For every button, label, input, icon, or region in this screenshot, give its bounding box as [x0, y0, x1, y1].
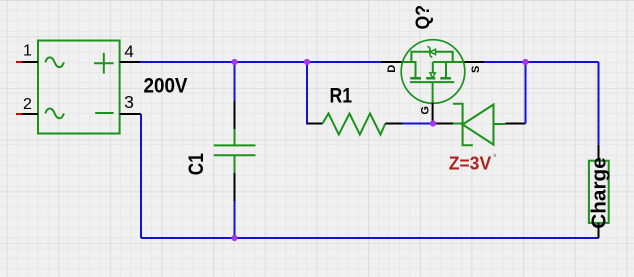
triangle — [463, 105, 494, 145]
bridge AC symbol top (~) — [45, 57, 64, 67]
bridge minus symbol — [95, 112, 113, 114]
node: right rail junction — [522, 59, 528, 65]
svg-text:4: 4 — [124, 42, 133, 61]
svg-text:1: 1 — [23, 43, 32, 60]
body diode triangle — [430, 49, 435, 54]
wire R1 to gate node — [403, 123, 433, 125]
node: gate junction — [430, 120, 436, 126]
node: R1 top junction — [304, 59, 310, 65]
charge bottom pin black — [598, 223, 600, 238]
svg-text:C1: C1 — [185, 153, 208, 175]
wire gate node to zener — [433, 123, 453, 125]
svg-text:2: 2 — [23, 96, 32, 113]
wire top rail left (pin4 to mosfet) — [140, 61, 381, 63]
D lead inside — [402, 62, 416, 78]
R1 left pin black — [307, 123, 323, 125]
bridge rectifier BR1 body — [38, 41, 120, 134]
transistor Q? mosfet — [401, 40, 465, 104]
cathode bar with bent tips — [453, 104, 473, 146]
pin 4 stub — [120, 61, 140, 63]
svg-text:Z=3V: Z=3V — [449, 154, 492, 174]
wire R1 branch down — [307, 62, 323, 124]
body diode zener bar — [428, 46, 433, 57]
pin 1 stub — [22, 61, 38, 63]
charge top pin black — [598, 145, 600, 161]
zener right black wire — [506, 123, 526, 125]
S lead inside with body connector — [433, 62, 465, 78]
channel contacts — [410, 77, 451, 80]
wire zener drop — [525, 62, 527, 124]
S pin black — [465, 61, 485, 63]
capacitor C1 — [214, 129, 256, 173]
svg-text:D: D — [386, 65, 398, 73]
node: bottom rail junction — [231, 235, 237, 241]
svg-text:Q?: Q? — [413, 5, 434, 30]
top bar with posts — [411, 52, 452, 62]
svg-text:S: S — [470, 66, 482, 73]
right pin — [494, 123, 506, 125]
body arrow head — [430, 73, 435, 78]
svg-text:x: x — [493, 153, 496, 159]
wire C1 top — [234, 62, 236, 101]
D pin black — [381, 61, 402, 63]
pin 3 stub — [120, 113, 141, 115]
C1 bottom pin black — [234, 173, 236, 201]
circle — [401, 40, 465, 104]
pin 2 stub — [22, 113, 38, 115]
bridge AC symbol bottom (~) — [45, 109, 64, 119]
load Charge box — [589, 161, 609, 223]
left pin — [453, 123, 463, 125]
resistor R1 zigzag — [323, 114, 386, 135]
pin 1 red tip — [16, 61, 22, 63]
wire S to right junction — [484, 61, 599, 63]
gate lead green — [432, 82, 434, 103]
wire bottom rail — [141, 237, 599, 239]
wire right rail down — [598, 62, 600, 145]
wire C1 bottom — [234, 201, 236, 238]
svg-text:R1: R1 — [330, 85, 353, 108]
svg-text:G: G — [419, 106, 431, 115]
wire pin3 down — [140, 114, 142, 238]
bridge plus symbol — [94, 53, 114, 74]
body arrow stem — [432, 62, 434, 73]
C1 top pin black — [234, 101, 236, 129]
gate pin black — [432, 103, 434, 124]
svg-text:3: 3 — [124, 92, 134, 112]
gate plate — [410, 81, 454, 83]
diode D1 zener Z=3V — [453, 104, 506, 146]
svg-text:200V: 200V — [144, 75, 188, 98]
R1 right pin black — [385, 123, 402, 125]
pin 2 red tip — [16, 113, 22, 115]
node: C1 top junction — [231, 59, 237, 65]
svg-text:Charge: Charge — [588, 157, 610, 229]
